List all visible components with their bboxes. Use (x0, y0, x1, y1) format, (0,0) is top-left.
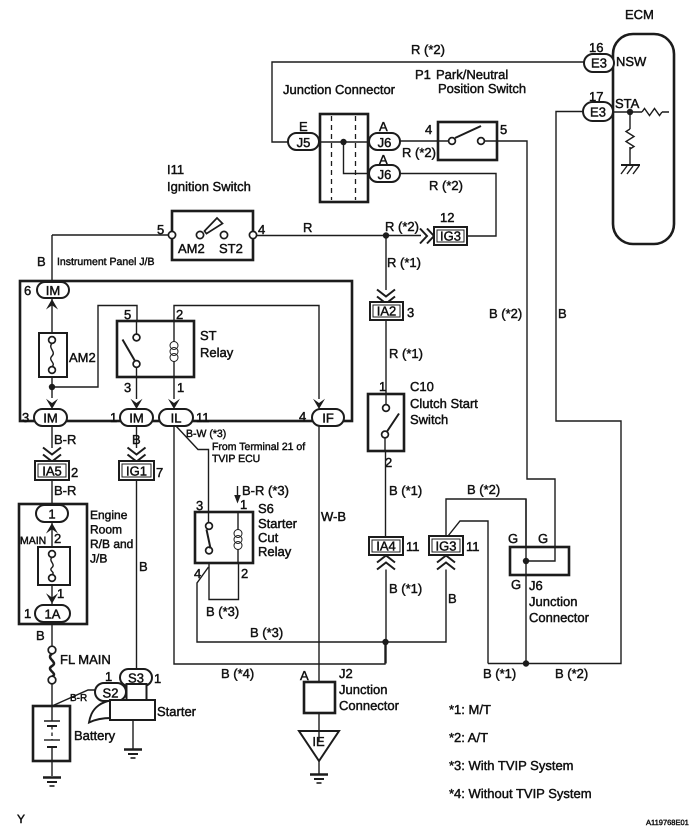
wire branch to lower J6 (344, 142, 370, 174)
svg-text:W-B: W-B (321, 509, 346, 524)
wire bottom run (488, 112, 621, 664)
junction connector body (320, 114, 368, 202)
svg-text:J/B: J/B (90, 552, 107, 566)
svg-text:1: 1 (48, 507, 55, 522)
svg-text:IA4: IA4 (376, 539, 396, 554)
connector J6 upper (369, 133, 400, 150)
svg-text:Battery: Battery (74, 728, 116, 743)
svg-text:G: G (508, 531, 518, 546)
relay coil ST (170, 342, 178, 350)
terminal circles (168, 231, 175, 238)
fusible link FL MAIN (48, 646, 56, 654)
svg-text:7: 7 (156, 465, 163, 480)
wire node to IA2 (385, 236, 387, 291)
svg-text:B: B (132, 432, 141, 447)
P/N switch body (438, 122, 497, 160)
fuse MAIN body (38, 547, 70, 585)
junction connector J6 bottom body (510, 547, 569, 575)
starter hook (89, 701, 112, 723)
ECM U1 body (613, 34, 674, 244)
svg-text:Clutch Start: Clutch Start (410, 396, 478, 411)
svg-text:11: 11 (406, 539, 420, 554)
svg-text:B: B (448, 591, 457, 606)
ground symbol IE (310, 773, 328, 776)
connector IA2 pin3 (370, 302, 403, 320)
svg-text:E: E (299, 119, 308, 134)
svg-text:Starter: Starter (258, 516, 298, 531)
wire down to J/B (51, 235, 53, 283)
svg-text:*3: With TVIP System: *3: With TVIP System (449, 758, 574, 773)
svg-text:IM: IM (46, 283, 60, 298)
connector S3 (120, 669, 152, 686)
svg-text:Junction Connector: Junction Connector (283, 82, 396, 97)
wire IA4 to bottom node (385, 570, 387, 664)
connector E3 pin16 (584, 54, 614, 72)
svg-text:Y: Y (17, 812, 25, 826)
ground IE triangle (299, 731, 339, 761)
wire pin2 to IF (174, 306, 319, 400)
svg-text:3: 3 (124, 380, 131, 395)
S6 relay body (195, 512, 253, 563)
svg-text:B (*2): B (*2) (467, 482, 500, 497)
coil stubs (237, 513, 239, 563)
svg-text:*4: Without TVIP System: *4: Without TVIP System (449, 786, 592, 801)
connector IA4 pin11 (369, 537, 403, 555)
svg-text:B: B (37, 254, 46, 269)
svg-text:16: 16 (589, 40, 603, 55)
wire IL to S6 pin3 (B-W *3) (176, 426, 209, 513)
svg-text:ST2: ST2 (219, 241, 243, 256)
svg-text:From Terminal 21 of: From Terminal 21 of (212, 441, 305, 453)
wire IA2 to C10 (385, 320, 387, 394)
contact circles (383, 405, 390, 412)
svg-text:2: 2 (54, 531, 61, 546)
node inside J6 (523, 558, 529, 564)
key wedge (205, 218, 223, 234)
svg-text:R (*1): R (*1) (389, 346, 423, 361)
wire J6 to P/N switch (400, 140, 438, 142)
svg-text:ST: ST (200, 328, 217, 343)
svg-text:1: 1 (379, 379, 386, 394)
svg-text:B: B (36, 628, 45, 643)
chevrons into IA5 (43, 448, 61, 462)
relay coil S6 (234, 530, 242, 538)
wire through connector (319, 141, 369, 143)
svg-text:Cut: Cut (258, 530, 279, 545)
node bottom run (523, 660, 529, 666)
C10 switch body (368, 394, 404, 451)
svg-text:5: 5 (500, 122, 507, 137)
svg-text:R/B and: R/B and (90, 537, 133, 551)
svg-text:4: 4 (425, 122, 432, 137)
wire IG1 to S3 (136, 480, 138, 669)
svg-text:2: 2 (71, 465, 78, 480)
svg-text:11: 11 (196, 410, 210, 425)
wire IM1 to IG1 (136, 426, 138, 448)
svg-text:B: B (558, 306, 567, 321)
pin stubs (385, 394, 386, 451)
wire AM2 feed from left (52, 234, 168, 236)
svg-text:IA5: IA5 (42, 464, 62, 479)
svg-text:IG3: IG3 (436, 539, 457, 554)
battery symbol (44, 706, 60, 721)
node inside junction connector (340, 139, 346, 145)
connector J5 (288, 133, 319, 150)
svg-text:11: 11 (466, 539, 480, 554)
svg-text:Instrument Panel J/B: Instrument Panel J/B (57, 256, 154, 268)
svg-text:R (*2): R (*2) (411, 42, 445, 57)
ST relay body (117, 321, 194, 377)
ground ECM internal (621, 164, 640, 166)
chevrons out of IA4 (377, 556, 395, 570)
svg-text:Connector: Connector (339, 698, 400, 713)
svg-text:B (*4): B (*4) (221, 666, 254, 681)
connector IG3 pin12 (434, 227, 467, 245)
svg-text:Ignition Switch: Ignition Switch (167, 179, 251, 194)
wire IE to ground (318, 731, 320, 774)
svg-text:B (*2): B (*2) (555, 666, 588, 681)
svg-text:Starter: Starter (157, 704, 197, 719)
switch arm (387, 414, 399, 432)
svg-text:5: 5 (157, 222, 164, 237)
switch arm (455, 126, 481, 138)
svg-text:STA: STA (615, 96, 640, 111)
svg-text:B-R (*3): B-R (*3) (242, 483, 289, 498)
svg-text:B-R: B-R (54, 483, 76, 498)
wire IF to IE (318, 426, 320, 731)
svg-text:TVIP ECU: TVIP ECU (212, 453, 260, 465)
wire fuse to 1A (51, 585, 53, 605)
wire pin1 to IL (173, 377, 175, 399)
svg-text:B: B (139, 559, 148, 574)
node STA junction (627, 109, 633, 115)
svg-text:E3: E3 (590, 105, 606, 120)
wire branch to ST relay pin5 (52, 306, 137, 388)
svg-text:Switch: Switch (410, 412, 448, 427)
arrow up into IM6 (46, 299, 58, 310)
connector E3 pin17 (583, 102, 613, 121)
wire pin5 stub (136, 321, 138, 334)
svg-text:I11: I11 (167, 162, 184, 177)
svg-text:*2: A/T: *2: A/T (449, 730, 488, 745)
ground battery (43, 776, 61, 779)
svg-text:IG1: IG1 (126, 464, 147, 479)
svg-text:G: G (511, 577, 521, 592)
svg-text:1: 1 (105, 669, 112, 684)
wire pin5 down right side B(*2) (497, 141, 555, 547)
resistor R-STA horizontal (642, 109, 662, 116)
svg-text:Relay: Relay (258, 544, 292, 559)
svg-text:AM2: AM2 (178, 241, 205, 256)
connector J6 lower (369, 165, 400, 182)
svg-text:J6: J6 (378, 135, 392, 150)
wire starter to ground (132, 720, 134, 749)
arrow down into 1A (46, 593, 58, 603)
svg-text:S6: S6 (258, 501, 274, 516)
connector S2 (95, 683, 126, 701)
svg-text:12: 12 (440, 210, 454, 225)
svg-text:B (*1): B (*1) (483, 666, 516, 681)
wire coil stubs (173, 321, 175, 377)
wire STA internal (613, 111, 669, 113)
wire B-R battery to S2 (52, 690, 95, 706)
svg-text:Connector: Connector (529, 610, 590, 625)
relay contact circles (133, 334, 140, 341)
arrow down to IL (168, 399, 180, 409)
contact circles (438, 140, 497, 142)
svg-text:B (*1): B (*1) (389, 483, 422, 498)
arrow down to IM1 (131, 399, 143, 409)
svg-text:1: 1 (177, 380, 184, 395)
wire B(*4) bypass (174, 426, 385, 664)
svg-text:1: 1 (240, 497, 247, 512)
svg-text:J2: J2 (339, 666, 353, 681)
wire IG3 tap to right-down run (448, 521, 488, 664)
connector IA5 pin2 (35, 461, 69, 480)
connector IM pin3 (34, 409, 67, 426)
wire IM6 to AM2 fuse (51, 299, 53, 333)
svg-text:R (*2): R (*2) (429, 178, 463, 193)
svg-text:S2: S2 (103, 686, 119, 701)
relay switch arm (207, 530, 211, 549)
svg-text:ECM: ECM (625, 7, 654, 22)
wire lower J6 to IG3(12) (400, 174, 496, 237)
svg-text:B (*2): B (*2) (489, 306, 522, 321)
svg-text:B (*1): B (*1) (389, 581, 422, 596)
svg-text:1: 1 (57, 586, 64, 601)
wire R(*2) NSW to junction connector (272, 62, 584, 142)
arrow down to IF (313, 399, 325, 409)
wire pin3 to IM1 (136, 367, 138, 399)
svg-text:4: 4 (299, 409, 306, 424)
ignition switch body (172, 211, 253, 260)
wire fuse to node (51, 377, 53, 398)
svg-text:4: 4 (258, 222, 265, 237)
svg-text:B-R: B-R (54, 432, 76, 447)
chevrons into IA2 (377, 290, 395, 304)
wire through J6 vertical (525, 499, 527, 664)
svg-text:B-R: B-R (70, 693, 87, 704)
svg-text:J6: J6 (378, 167, 392, 182)
wire IA5 to engine room (51, 480, 53, 506)
svg-text:B-W (*3): B-W (*3) (186, 428, 226, 440)
svg-text:E3: E3 (591, 56, 607, 71)
wire to internal resistor (629, 112, 631, 164)
wire 1A to FL MAIN (51, 622, 53, 647)
connector IF (312, 409, 344, 426)
node ST2 wire branch (383, 232, 389, 238)
svg-text:R (*2): R (*2) (402, 145, 436, 160)
svg-text:R (*1): R (*1) (387, 255, 421, 270)
svg-text:1: 1 (24, 606, 31, 621)
svg-text:6: 6 (24, 283, 31, 298)
svg-text:G: G (538, 531, 548, 546)
wire ST2 to IG3(12) (257, 235, 421, 237)
wire FL MAIN to battery (51, 684, 53, 706)
chevrons out of IG3 (437, 556, 455, 570)
connector IG1 pin7 (119, 461, 154, 480)
fuse AM2 body (39, 333, 67, 377)
svg-text:Relay: Relay (200, 345, 234, 360)
svg-text:IL: IL (171, 411, 182, 426)
connector 1A (35, 605, 70, 622)
connector IM pin1 (120, 409, 153, 426)
connector 1 (engine room top) (36, 505, 68, 522)
svg-text:MAIN: MAIN (20, 535, 46, 547)
svg-text:J6: J6 (529, 578, 543, 593)
starter neck (127, 684, 147, 701)
wire IM3 to IA5 (51, 426, 53, 448)
svg-text:Park/Neutral: Park/Neutral (436, 67, 508, 82)
wire pin4 U-loop to pin2 (209, 563, 239, 600)
connector IG3 pin11 (429, 536, 463, 555)
wire IG3 up to J6 dot (B*2) (446, 499, 526, 547)
battery body (33, 706, 70, 761)
dashed partition lines (332, 116, 356, 200)
svg-text:IM: IM (129, 411, 143, 426)
relay switch arm (123, 340, 136, 362)
svg-text:FL MAIN: FL MAIN (60, 652, 111, 667)
chevrons into IG3(12) (420, 229, 434, 244)
svg-text:B (*3): B (*3) (206, 604, 239, 619)
wire C10 to IA4 (385, 451, 387, 537)
arrow up into connector 1 (46, 523, 58, 534)
instrument panel J/B body (20, 281, 352, 421)
starter M1 body (110, 700, 155, 720)
arrow down to IM3 (46, 399, 58, 409)
svg-text:Room: Room (90, 523, 122, 537)
svg-text:2: 2 (241, 566, 248, 581)
svg-text:P1: P1 (415, 67, 431, 82)
svg-text:J5: J5 (297, 135, 311, 150)
svg-text:Engine: Engine (90, 508, 128, 522)
svg-text:IF: IF (322, 411, 334, 426)
wire to MAIN fuse (51, 522, 53, 547)
svg-text:Junction: Junction (339, 682, 387, 697)
svg-text:*1: M/T: *1: M/T (449, 702, 491, 717)
engine room R/B body (19, 504, 87, 624)
svg-text:IM: IM (43, 411, 57, 426)
svg-text:3: 3 (407, 305, 414, 320)
svg-text:1: 1 (154, 671, 161, 686)
svg-text:IG3: IG3 (440, 229, 461, 244)
svg-text:1A: 1A (45, 607, 61, 622)
svg-text:NSW: NSW (616, 54, 647, 69)
connector IM pin6 (37, 282, 69, 298)
connector IL (159, 409, 193, 426)
node below AM2 fuse (49, 384, 55, 390)
relay contact circles (206, 523, 213, 530)
svg-text:1: 1 (110, 410, 117, 425)
svg-text:Position Switch: Position Switch (438, 81, 526, 96)
svg-text:R (*2): R (*2) (385, 219, 419, 234)
svg-text:IA2: IA2 (377, 304, 397, 319)
svg-text:R: R (303, 220, 312, 235)
node IA4 line crossing (382, 639, 388, 645)
junction connector J2 body (304, 682, 335, 713)
arrow B-R (*3) feed (237, 486, 239, 497)
pin3 stub (208, 513, 210, 523)
svg-text:AM2: AM2 (69, 350, 96, 365)
svg-text:A: A (379, 119, 388, 134)
svg-text:3: 3 (22, 410, 29, 425)
chevrons into IG1 (128, 448, 146, 462)
svg-text:C10: C10 (410, 379, 434, 394)
svg-text:B (*3): B (*3) (250, 625, 283, 640)
ground starter (124, 748, 142, 751)
wire pin4 to bottom run B(*3) (197, 567, 446, 642)
svg-text:A119768E01: A119768E01 (646, 818, 689, 827)
resistor R-pulldown vertical (626, 129, 634, 149)
wire inside J6 (526, 547, 555, 561)
svg-text:Junction: Junction (529, 594, 577, 609)
